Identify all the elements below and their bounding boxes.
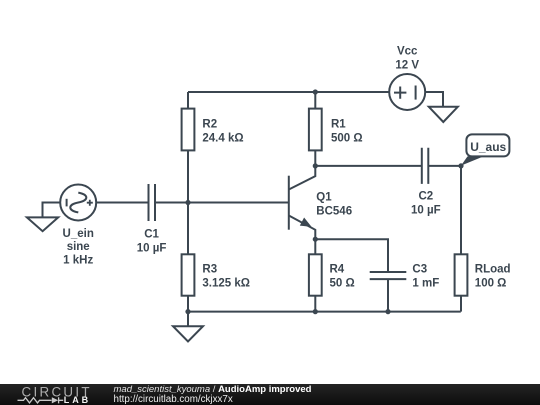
ground at U_ein — [27, 217, 58, 231]
svg-text:R3: R3 — [202, 264, 217, 276]
wire R1 bottom stub — [314, 150, 316, 166]
wire ground stub bottom — [187, 312, 189, 327]
transistor Q1 base bar — [288, 176, 290, 230]
logo circuit line resistor zigzag — [18, 398, 52, 403]
wire R2 top stub — [187, 92, 189, 109]
svg-text:U_aus: U_aus — [470, 140, 506, 154]
wire top rail — [188, 91, 389, 93]
wire Vcc right lead — [425, 92, 443, 107]
node R4 bottom junction — [313, 309, 318, 314]
svg-text:sine: sine — [67, 241, 90, 253]
svg-text:1 kHz: 1 kHz — [63, 254, 93, 266]
svg-text:12 V: 12 V — [395, 60, 419, 72]
capacitor C1 plates — [149, 184, 156, 221]
wire bottom rail — [188, 311, 461, 313]
svg-text:Q1: Q1 — [316, 191, 332, 203]
U_ein minus bar — [66, 199, 68, 207]
V1 plus sign — [394, 87, 406, 99]
svg-text:10 µF: 10 µF — [137, 242, 167, 254]
svg-text:RLoad: RLoad — [475, 264, 511, 276]
wire RLoad bottom stub — [460, 296, 462, 312]
svg-text:100 Ω: 100 Ω — [475, 278, 507, 290]
ground bottom — [173, 326, 203, 341]
wire C3 bottom stub — [387, 279, 389, 312]
svg-text:BC546: BC546 — [316, 205, 352, 217]
transistor Q1 emitter diagonal — [289, 216, 316, 240]
wire U_ein to C1 — [96, 202, 148, 204]
capacitor C3 plates — [370, 272, 407, 279]
svg-text:U_ein: U_ein — [63, 228, 94, 240]
wire R2 bottom to node A — [187, 150, 189, 202]
U_ein sine glyph — [70, 193, 86, 213]
svg-text:10 µF: 10 µF — [411, 205, 441, 217]
wire node A down to R3 — [187, 203, 189, 255]
resistor RLoad — [455, 254, 468, 295]
wire C2 to output node — [428, 165, 461, 167]
wire emitter to C3 branch — [315, 239, 388, 272]
svg-text:Vcc: Vcc — [397, 46, 418, 58]
logo diode bar and lead — [59, 397, 64, 403]
svg-text:24.4 kΩ: 24.4 kΩ — [202, 133, 243, 145]
wire output node down to RLoad — [460, 166, 462, 254]
wire R3 bottom stub — [187, 296, 189, 312]
svg-text:R2: R2 — [202, 119, 217, 131]
ground at Vcc — [429, 107, 458, 122]
net flag U_aus pointer — [461, 156, 484, 165]
node emitter junction — [313, 237, 318, 242]
svg-text:1 mF: 1 mF — [412, 278, 439, 290]
transistor Q1 collector diagonal — [289, 166, 316, 190]
net flag U_aus box — [466, 134, 509, 156]
resistor R1 — [309, 109, 322, 151]
wire U_ein left lead — [43, 203, 61, 218]
transistor Q1 emitter arrow — [300, 218, 312, 227]
wire R4 bottom stub — [314, 296, 316, 312]
node collector junction — [313, 163, 318, 168]
wire collector to C2 — [315, 165, 422, 167]
svg-text:3.125 kΩ: 3.125 kΩ — [202, 278, 250, 290]
wire emitter to R4 — [314, 239, 316, 254]
svg-text:C3: C3 — [412, 264, 427, 276]
voltage source V1 Vcc circle — [389, 74, 425, 110]
resistor R3 — [182, 254, 195, 295]
node top rail junction — [313, 89, 318, 94]
wire C1 to base node A — [155, 202, 289, 204]
node C3 bottom junction — [385, 309, 390, 314]
logo diode symbol — [52, 397, 58, 403]
node ground junction — [185, 309, 190, 314]
svg-text:R1: R1 — [331, 119, 346, 131]
svg-text:50 Ω: 50 Ω — [330, 278, 355, 290]
voltage source U_ein circle — [60, 185, 96, 221]
wire R1 top stub — [314, 92, 316, 109]
svg-text:http://circuitlab.com/ckjxx7x: http://circuitlab.com/ckjxx7x — [114, 394, 233, 405]
svg-text:C2: C2 — [418, 190, 433, 202]
svg-text:500 Ω: 500 Ω — [331, 133, 363, 145]
U_ein plus sign — [87, 200, 93, 206]
svg-text:LAB: LAB — [64, 395, 91, 405]
node A junction — [185, 200, 190, 205]
svg-text:R4: R4 — [330, 264, 345, 276]
resistor R4 — [309, 254, 322, 295]
svg-text:C1: C1 — [144, 228, 159, 240]
V1 bar — [415, 86, 417, 100]
node output junction — [458, 163, 463, 168]
capacitor C2 plates — [422, 148, 429, 184]
resistor R2 — [182, 109, 195, 151]
